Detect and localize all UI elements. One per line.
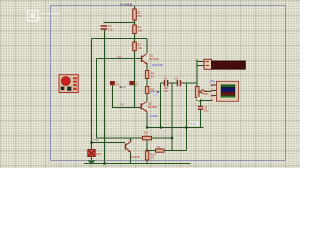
capacitor C4 [165, 80, 168, 86]
svg-text:1k: 1k [151, 75, 155, 79]
wire rail A to R8 [97, 137, 143, 139]
wire rail E [147, 127, 204, 129]
probe readout white box [152, 93, 158, 96]
transistor Q3 [126, 142, 131, 153]
wire bargraph pin bar down to pot [196, 60, 198, 87]
svg-text:LS1: LS1 [96, 152, 102, 156]
wire display pin stubs [212, 85, 217, 96]
wire R10 bottom to ground rail [146, 160, 148, 164]
wire R10 top riser [146, 140, 148, 151]
svg-text:10K: 10K [203, 92, 208, 96]
wire pot wiper to display pin 2 [204, 91, 212, 93]
resistor R1 [133, 9, 137, 20]
resistor R3 [133, 42, 137, 51]
capacitor C1 (electrolytic) [101, 26, 108, 29]
lamp X1 (box with X) [88, 150, 95, 157]
watermark logo icon [28, 11, 40, 22]
svg-text:⌜mic: ⌜mic [116, 55, 122, 59]
wire C6 top from pot bottom wire [199, 101, 201, 107]
wire feedback column x=186.3 [185, 83, 187, 151]
wire column x=172 from cap row to R9 [171, 83, 173, 151]
svg-text:Q3: Q3 [129, 139, 133, 143]
svg-text:0.50: 0.50 [153, 94, 158, 97]
svg-text:BC548: BC548 [149, 57, 159, 61]
wire Q1 emitter to R4 [146, 63, 148, 71]
svg-text:C5: C5 [174, 76, 178, 80]
display pin marks [211, 84, 213, 101]
LED bargraph DS1 display body [212, 61, 246, 70]
wire probe X2 feed to Q2 base [112, 85, 141, 108]
wire bargraph pin stubs [197, 62, 204, 66]
sheet border [51, 6, 286, 161]
wire R8 right to x=172 column [152, 137, 173, 139]
svg-text:R9: R9 [157, 145, 161, 149]
wire R1 bottom to R2 top [134, 20, 136, 25]
svg-text:▸0.06: ▸0.06 [150, 114, 158, 118]
svg-text:47k: 47k [137, 14, 142, 18]
wire top rail [92, 38, 148, 40]
wire Q1 base [97, 58, 142, 60]
wire ground rail [84, 163, 191, 165]
probe mark dark cross [157, 91, 159, 93]
svg-text:⌜sig: ⌜sig [118, 102, 123, 106]
wire left column x=91.5 down to lamp X1 [91, 39, 93, 150]
microphone MK1 [59, 75, 78, 93]
svg-text:0.00: 0.00 [190, 122, 196, 126]
probe X2 (box with X) [110, 81, 114, 84]
wire R9 left [147, 150, 156, 152]
oscilloscope display U1 body [217, 81, 239, 101]
wire Q3 emitter to ground rail [130, 153, 132, 164]
wire C5 to pot column [181, 82, 198, 84]
svg-text:10u: 10u [108, 27, 113, 31]
wire R4 to R5 [146, 79, 148, 87]
svg-text:2n2: 2n2 [135, 84, 139, 86]
wire R2 bottom to R3 top [134, 34, 136, 43]
wire C1 top to R1/R2 junction [104, 22, 135, 24]
svg-text:⌜sig: ⌜sig [93, 137, 98, 141]
wire Q1 collector riser [146, 39, 148, 54]
svg-text:C4: C4 [163, 76, 167, 80]
resistor R9 (horizontal) [156, 149, 165, 152]
svg-text:▸TR=40: ▸TR=40 [152, 63, 163, 67]
potentiometer RV1 [195, 87, 203, 101]
wire Q2 emitter to rail E [146, 112, 148, 128]
wire between C4 and C5 [168, 82, 177, 84]
svg-text:10k: 10k [137, 28, 142, 32]
wire column x=104.5 C1 bottom to ground rail [104, 30, 106, 164]
wire column x=96.5 down to rail A [96, 59, 98, 139]
watermark text [40, 12, 62, 20]
junction dots [90, 99, 201, 164]
svg-text:10: 10 [150, 155, 154, 159]
transistor Q1 [142, 54, 148, 65]
resistor R5 [145, 87, 148, 94]
resistor R2 [133, 25, 137, 34]
wire pot bottom to display pin 4 [197, 98, 211, 101]
ground symbol [88, 157, 96, 165]
resistor R8 (horizontal) [143, 136, 152, 139]
wire R3 bottom down to Q2 base feed [134, 51, 136, 108]
resistor R10 [145, 151, 148, 160]
capacitor C5 [177, 80, 180, 86]
svg-text:■0.5: ■0.5 [120, 85, 126, 89]
svg-text:10k: 10k [137, 46, 142, 50]
wire R5 to Q2 collector [146, 94, 148, 102]
capacitor C6 [198, 107, 203, 110]
probe X3 (box with X) [130, 81, 134, 84]
wire capacitor row [161, 82, 165, 84]
wire R1 to power label stub [134, 6, 136, 9]
wire C6 bottom to rail E [199, 109, 201, 127]
svg-text:▸0.6: ▸0.6 [150, 90, 155, 94]
transistor Q2 [141, 102, 147, 112]
svg-text:TP1: TP1 [210, 80, 216, 84]
svg-text:9V: 9V [129, 4, 132, 8]
svg-text:10u: 10u [203, 109, 208, 113]
svg-text:BC548: BC548 [148, 105, 158, 109]
svg-text:BC548: BC548 [130, 155, 140, 159]
wire cap row left drop to rail E [160, 83, 162, 128]
svg-text:1k5: 1k5 [164, 89, 169, 93]
label probe blue 0.00 [190, 121, 199, 125]
svg-text:10k: 10k [144, 133, 149, 137]
LED bargraph DS1 pin box [204, 59, 212, 69]
wire rail B to Q3 base [92, 142, 126, 144]
wire R9 right [164, 150, 186, 152]
wire Q3 collector riser [130, 138, 132, 142]
resistor R4 [145, 71, 148, 79]
text labels (red component refs) [93, 2, 215, 159]
svg-text:ELECTRONICS: ELECTRONICS [40, 16, 62, 20]
